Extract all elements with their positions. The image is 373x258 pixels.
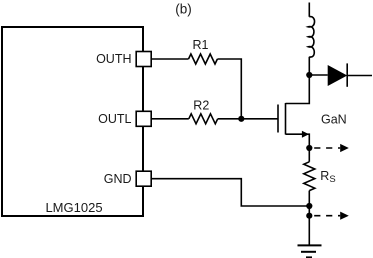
- label GND: [104, 172, 132, 186]
- wire R2 to junction: [218, 118, 242, 120]
- svg-text:RS: RS: [320, 169, 335, 185]
- svg-text:GND: GND: [104, 172, 132, 186]
- label GaN: [321, 113, 347, 127]
- svg-text:GaN: GaN: [321, 113, 347, 127]
- resistor R1: [189, 54, 218, 64]
- wire Rs to ground node: [308, 191, 310, 206]
- ground symbol: [298, 216, 322, 258]
- svg-text:OUTH: OUTH: [96, 52, 131, 66]
- wire between ground nodes: [308, 206, 310, 216]
- label OUTL: [98, 112, 131, 126]
- label LMG1025: [45, 200, 102, 215]
- IC U1 LMG1025 box: [2, 27, 143, 216]
- node source (source/Rs junction): [306, 145, 312, 151]
- label (b): [175, 2, 192, 17]
- node gnd-wire junction: [306, 203, 312, 209]
- wire GND pin to ground node: [152, 179, 310, 206]
- wire source node to Rs: [308, 148, 310, 162]
- resistor R2: [189, 114, 218, 124]
- dashed probe arrow at source node: [314, 144, 349, 152]
- pin OUTH: [136, 52, 151, 67]
- svg-text:(b): (b): [175, 2, 192, 17]
- node probe junction: [306, 213, 312, 219]
- label R1: [193, 38, 209, 52]
- label OUTH: [96, 52, 131, 66]
- label Rs: [320, 169, 335, 185]
- wire junction to gate: [241, 118, 278, 120]
- pin OUTL: [136, 111, 151, 126]
- svg-text:LMG1025: LMG1025: [45, 200, 102, 215]
- wire OUTH pin to R1: [152, 58, 189, 60]
- label R2: [193, 99, 209, 113]
- inductor L1: [308, 3, 314, 76]
- pin GND: [136, 171, 151, 186]
- dashed probe arrow at ground node: [314, 212, 349, 220]
- node drain (inductor/diode/drain junction): [306, 72, 312, 78]
- wire OUTL pin to R2: [152, 118, 189, 120]
- svg-text:R1: R1: [193, 38, 209, 52]
- wire R1 to junction (right then down): [217, 59, 241, 119]
- diode D1: [328, 63, 372, 86]
- svg-text:R2: R2: [193, 99, 209, 113]
- wire node to diode anode: [309, 74, 327, 76]
- resistor Rs: [304, 162, 315, 191]
- junction node gate: [238, 116, 244, 122]
- svg-text:OUTL: OUTL: [98, 112, 131, 126]
- transistor Q1 GaN FET: [278, 75, 309, 148]
